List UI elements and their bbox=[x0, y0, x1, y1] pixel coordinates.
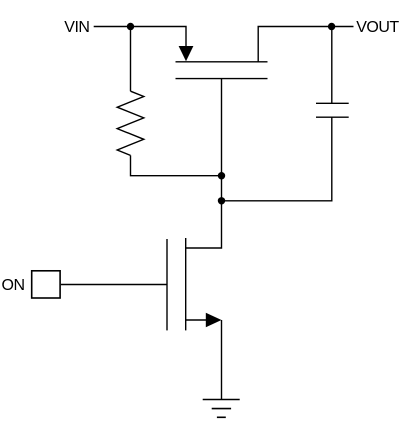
wire ON box to NMOS gate bbox=[61, 284, 167, 286]
wire VIN junction down to resistor bbox=[130, 27, 132, 92]
transistor Q1 PMOS gate bar bbox=[176, 78, 268, 80]
wire PMOS drain up to VOUT rail bbox=[258, 27, 353, 62]
resistor (VIN to gate node) bbox=[117, 91, 144, 155]
wire NMOS source down to ground bbox=[221, 320, 223, 400]
transistor Q2 NMOS gate bar bbox=[166, 239, 168, 330]
node A resistor/gate junction bbox=[218, 172, 225, 179]
wire resistor bottom to gate node bbox=[131, 155, 222, 175]
ON input box bbox=[32, 271, 60, 298]
transistor Q2 NMOS channel bar bbox=[185, 238, 187, 330]
node B capacitor/gate junction bbox=[218, 197, 225, 204]
transistor Q2 NMOS source arrow bbox=[206, 313, 222, 327]
transistor Q1 PMOS source arrow (pointing down) bbox=[179, 46, 194, 61]
svg-text:ON: ON bbox=[2, 277, 25, 294]
capacitor C top plate bbox=[316, 102, 349, 104]
node VIN junction bbox=[127, 23, 134, 30]
capacitor C bottom plate bbox=[316, 116, 349, 118]
wire NMOS source with arrow bbox=[186, 319, 207, 321]
transistor Q1 PMOS channel bar bbox=[176, 61, 268, 63]
svg-text:VIN: VIN bbox=[64, 19, 89, 36]
wire VOUT down to capacitor bbox=[331, 27, 333, 104]
wire VIN rail to PMOS source bbox=[94, 27, 186, 48]
wire capacitor bottom to gate node bbox=[222, 117, 332, 201]
wire gate node vertical spine (PMOS gate to NMOS drain) bbox=[186, 79, 222, 248]
ground bbox=[203, 400, 240, 418]
svg-text:VOUT: VOUT bbox=[356, 19, 399, 36]
node VOUT junction bbox=[328, 23, 335, 30]
